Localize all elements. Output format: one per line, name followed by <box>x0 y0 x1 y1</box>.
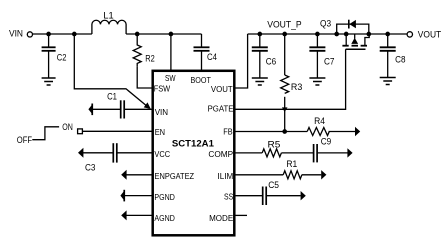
svg-text:SS: SS <box>224 192 233 202</box>
svg-text:BOOT: BOOT <box>191 75 211 85</box>
svg-text:AGND: AGND <box>154 213 174 223</box>
svg-text:VCC: VCC <box>154 149 170 159</box>
svg-text:MODE: MODE <box>209 213 233 223</box>
svg-text:R1: R1 <box>286 159 297 169</box>
svg-text:C1: C1 <box>107 92 117 102</box>
svg-text:Q3: Q3 <box>320 19 331 29</box>
svg-text:COMP: COMP <box>208 149 233 159</box>
svg-text:VOUT: VOUT <box>418 30 442 40</box>
svg-text:VOUT_P: VOUT_P <box>267 19 302 29</box>
svg-text:PGATE: PGATE <box>208 103 234 113</box>
svg-text:R5: R5 <box>268 139 281 149</box>
svg-text:C6: C6 <box>266 57 277 67</box>
svg-text:ILIM: ILIM <box>218 171 234 181</box>
svg-text:C2: C2 <box>57 53 67 63</box>
svg-text:SW: SW <box>165 73 176 83</box>
svg-text:ENPGATEZ: ENPGATEZ <box>155 171 195 181</box>
svg-text:VOUT: VOUT <box>211 84 233 94</box>
svg-text:C7: C7 <box>324 57 335 67</box>
svg-text:C4: C4 <box>207 52 217 62</box>
svg-text:FSW: FSW <box>154 83 171 93</box>
svg-text:SCT12A1: SCT12A1 <box>172 139 215 150</box>
svg-text:C9: C9 <box>321 137 332 147</box>
svg-text:ON: ON <box>62 122 73 132</box>
svg-text:C5: C5 <box>268 180 279 190</box>
svg-text:R4: R4 <box>314 116 325 126</box>
svg-text:VIN: VIN <box>9 29 23 39</box>
svg-text:C3: C3 <box>85 162 96 172</box>
svg-text:PGND: PGND <box>154 192 174 202</box>
svg-text:OFF: OFF <box>17 135 33 145</box>
svg-text:C8: C8 <box>395 55 405 65</box>
svg-text:L1: L1 <box>103 10 113 20</box>
svg-text:R3: R3 <box>291 82 303 92</box>
svg-text:FB: FB <box>223 126 233 136</box>
svg-text:R2: R2 <box>145 54 155 64</box>
svg-text:VIN: VIN <box>155 107 168 117</box>
svg-text:EN: EN <box>155 127 165 137</box>
